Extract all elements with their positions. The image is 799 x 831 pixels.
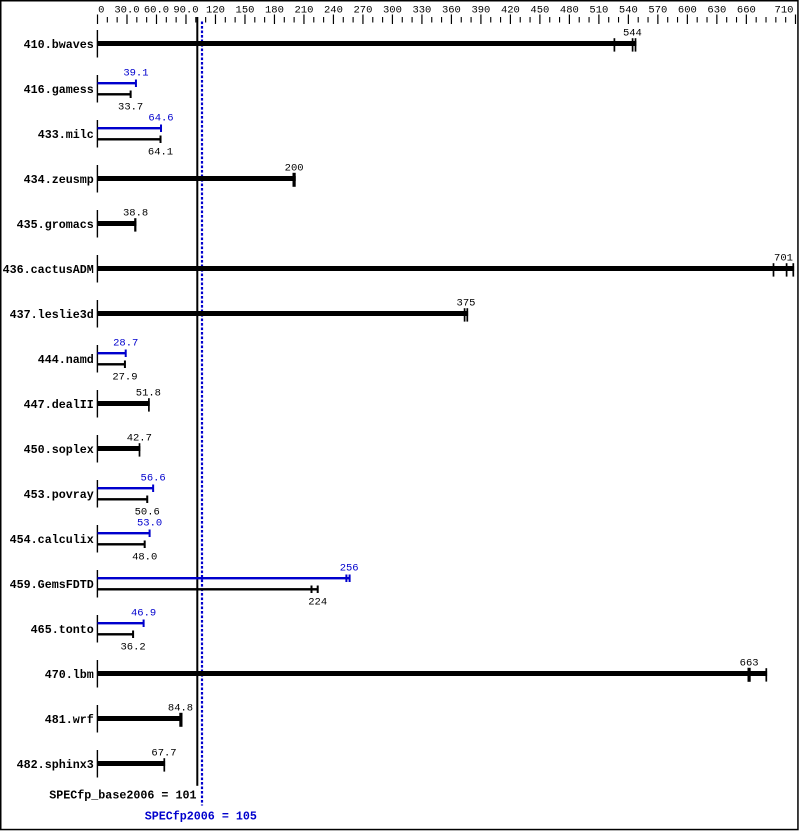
svg-text:701: 701: [774, 253, 793, 265]
465.tonto axis baseline tick: [97, 615, 98, 643]
459.GemsFDTD base bar: [98, 588, 318, 590]
453.povray peak bar: [98, 487, 154, 489]
416.gamess base value 33.7: [118, 102, 143, 114]
svg-text:375: 375: [457, 298, 476, 310]
454.calculix base value 48.0: [132, 552, 157, 564]
459.GemsFDTD peak run marker 2: [349, 575, 351, 583]
434.zeusmp run marker 1: [293, 173, 296, 187]
454.calculix base bar: [98, 543, 145, 545]
base reference line (101): [196, 17, 198, 786]
444.namd base value 27.9: [112, 372, 137, 384]
416.gamess peak value 39.1: [123, 68, 148, 80]
svg-text:435.gromacs: 435.gromacs: [17, 218, 94, 232]
436.cactusADM merged base+peak bar: [98, 266, 795, 271]
459.GemsFDTD axis baseline tick: [97, 570, 98, 598]
svg-text:453.povray: 453.povray: [24, 488, 94, 502]
benchmark label 447.dealII: [24, 398, 94, 412]
svg-text:450: 450: [530, 4, 549, 16]
svg-text:46.9: 46.9: [131, 608, 156, 620]
470.lbm result value 663: [740, 658, 759, 670]
benchmark label 481.wrf: [45, 713, 94, 727]
454.calculix base run marker 1: [144, 541, 146, 549]
svg-text:224: 224: [308, 597, 327, 609]
svg-text:200: 200: [285, 163, 304, 175]
410.bwaves result value 544: [623, 28, 642, 40]
416.gamess base bar: [98, 93, 131, 95]
434.zeusmp result value 200: [285, 163, 304, 175]
433.milc base run marker 1: [160, 136, 162, 144]
435.gromacs axis baseline tick: [97, 210, 98, 238]
410.bwaves merged base+peak bar: [98, 41, 637, 46]
svg-text:300: 300: [383, 4, 402, 16]
453.povray base run marker 1: [146, 496, 148, 504]
svg-text:710: 710: [775, 4, 794, 16]
peak reference line (105, dotted): [201, 22, 203, 806]
svg-text:420: 420: [501, 4, 520, 16]
481.wrf merged base+peak bar: [98, 716, 183, 721]
svg-text:SPECfp_base2006 = 101: SPECfp_base2006 = 101: [49, 789, 196, 803]
svg-text:465.tonto: 465.tonto: [31, 623, 94, 637]
433.milc base value 64.1: [148, 147, 173, 159]
svg-text:60.0: 60.0: [144, 4, 169, 16]
benchmark label 470.lbm: [45, 668, 94, 682]
450.soplex result value 42.7: [127, 433, 152, 445]
benchmark label 444.namd: [38, 353, 94, 367]
465.tonto base run marker 1: [132, 631, 134, 639]
svg-text:90.0: 90.0: [173, 4, 198, 16]
454.calculix peak value 53.0: [137, 518, 162, 530]
svg-text:410.bwaves: 410.bwaves: [24, 38, 94, 52]
465.tonto peak value 46.9: [131, 608, 156, 620]
465.tonto base bar: [98, 633, 134, 635]
svg-text:150: 150: [236, 4, 255, 16]
svg-text:454.calculix: 454.calculix: [10, 533, 94, 547]
benchmark label 437.leslie3d: [10, 308, 94, 322]
435.gromacs merged base+peak bar: [98, 221, 137, 226]
svg-text:450.soplex: 450.soplex: [24, 443, 94, 457]
svg-text:180: 180: [265, 4, 284, 16]
svg-text:42.7: 42.7: [127, 433, 152, 445]
433.milc peak bar: [98, 127, 162, 129]
444.namd base run marker 1: [124, 361, 126, 369]
svg-text:64.1: 64.1: [148, 147, 173, 159]
svg-text:360: 360: [442, 4, 461, 16]
svg-text:53.0: 53.0: [137, 518, 162, 530]
svg-text:64.6: 64.6: [148, 113, 173, 125]
459.GemsFDTD base value 224: [308, 597, 327, 609]
svg-text:540: 540: [619, 4, 638, 16]
svg-text:481.wrf: 481.wrf: [45, 713, 94, 727]
444.namd base bar: [98, 363, 125, 365]
svg-text:480: 480: [560, 4, 579, 16]
437.leslie3d run marker 1: [464, 308, 466, 321]
x-axis tick labels: [98, 4, 793, 16]
benchmark label 459.GemsFDTD: [10, 578, 94, 592]
434.zeusmp axis baseline tick: [97, 165, 98, 193]
x-axis minor ticks: [107, 17, 786, 23]
450.soplex merged base+peak bar: [98, 446, 141, 451]
x-axis major ticks: [97, 15, 796, 25]
470.lbm axis baseline tick: [97, 660, 98, 688]
416.gamess base run marker 1: [130, 91, 132, 99]
465.tonto peak bar: [98, 622, 144, 624]
470.lbm run marker 1: [748, 668, 751, 682]
436.cactusADM axis baseline tick: [97, 255, 98, 283]
svg-text:600: 600: [678, 4, 697, 16]
svg-text:56.6: 56.6: [141, 473, 166, 485]
436.cactusADM run marker 1: [773, 263, 775, 276]
svg-text:436.cactusADM: 436.cactusADM: [3, 263, 94, 277]
436.cactusADM run marker 3: [792, 263, 794, 276]
svg-text:36.2: 36.2: [120, 642, 145, 654]
benchmark label 454.calculix: [10, 533, 94, 547]
459.GemsFDTD base run marker 2: [317, 586, 319, 594]
svg-text:SPECfp2006 = 105: SPECfp2006 = 105: [145, 810, 257, 824]
437.leslie3d axis baseline tick: [97, 300, 98, 328]
435.gromacs result value 38.8: [123, 208, 148, 220]
447.dealII axis baseline tick: [97, 390, 98, 418]
453.povray peak value 56.6: [141, 473, 166, 485]
svg-text:660: 660: [737, 4, 756, 16]
434.zeusmp merged base+peak bar: [98, 176, 296, 181]
svg-text:30.0: 30.0: [114, 4, 139, 16]
svg-text:210: 210: [294, 4, 313, 16]
benchmark label 410.bwaves: [24, 38, 94, 52]
svg-text:444.namd: 444.namd: [38, 353, 94, 367]
459.GemsFDTD peak run marker 1: [345, 575, 347, 583]
410.bwaves run marker 2: [632, 38, 634, 51]
433.milc peak run marker 1: [160, 125, 162, 133]
453.povray base bar: [98, 498, 148, 500]
svg-text:630: 630: [707, 4, 726, 16]
459.GemsFDTD peak bar: [98, 577, 350, 579]
svg-text:28.7: 28.7: [113, 338, 138, 350]
svg-text:256: 256: [340, 563, 359, 575]
svg-text:482.sphinx3: 482.sphinx3: [17, 758, 94, 772]
svg-text:51.8: 51.8: [136, 388, 161, 400]
benchmark label 453.povray: [24, 488, 94, 502]
svg-text:437.leslie3d: 437.leslie3d: [10, 308, 94, 322]
481.wrf result value 84.8: [168, 703, 193, 715]
SPECfp_base2006 summary text: [49, 789, 196, 803]
465.tonto peak run marker 1: [143, 620, 145, 628]
svg-text:240: 240: [324, 4, 343, 16]
447.dealII result value 51.8: [136, 388, 161, 400]
454.calculix axis baseline tick: [97, 525, 98, 553]
482.sphinx3 merged base+peak bar: [98, 761, 166, 766]
433.milc peak value 64.6: [148, 113, 173, 125]
SPECfp2006 summary text: [145, 810, 257, 824]
454.calculix peak bar: [98, 532, 150, 534]
svg-text:544: 544: [623, 28, 642, 40]
444.namd peak value 28.7: [113, 338, 138, 350]
410.bwaves run marker 1: [614, 38, 616, 51]
433.milc base bar: [98, 138, 161, 140]
benchmark label 482.sphinx3: [17, 758, 94, 772]
416.gamess peak bar: [98, 82, 136, 84]
svg-text:120: 120: [206, 4, 225, 16]
svg-text:33.7: 33.7: [118, 102, 143, 114]
svg-text:470.lbm: 470.lbm: [45, 668, 94, 682]
416.gamess axis baseline tick: [97, 75, 98, 103]
481.wrf axis baseline tick: [97, 705, 98, 733]
svg-text:570: 570: [648, 4, 667, 16]
470.lbm run marker 2: [765, 668, 767, 681]
450.soplex run marker 1: [139, 443, 141, 456]
444.namd axis baseline tick: [97, 345, 98, 373]
svg-text:27.9: 27.9: [112, 372, 137, 384]
benchmark label 434.zeusmp: [24, 173, 94, 187]
453.povray peak run marker 1: [152, 485, 154, 493]
svg-text:67.7: 67.7: [151, 748, 176, 760]
482.sphinx3 axis baseline tick: [97, 750, 98, 778]
benchmark label 416.gamess: [24, 83, 94, 97]
410.bwaves run marker 3: [635, 38, 637, 51]
482.sphinx3 result value 67.7: [151, 748, 176, 760]
svg-text:38.8: 38.8: [123, 208, 148, 220]
svg-text:84.8: 84.8: [168, 703, 193, 715]
436.cactusADM result value 701: [774, 253, 793, 265]
444.namd peak bar: [98, 352, 126, 354]
svg-text:39.1: 39.1: [123, 68, 148, 80]
459.GemsFDTD base run marker 1: [311, 586, 313, 594]
benchmark label 436.cactusADM: [3, 263, 94, 277]
447.dealII run marker 1: [148, 398, 150, 411]
465.tonto base value 36.2: [120, 642, 145, 654]
437.leslie3d result value 375: [457, 298, 476, 310]
481.wrf run marker 1: [179, 713, 182, 727]
svg-text:447.dealII: 447.dealII: [24, 398, 94, 412]
436.cactusADM run marker 2: [786, 263, 788, 276]
459.GemsFDTD peak value 256: [340, 563, 359, 575]
svg-text:330: 330: [412, 4, 431, 16]
svg-text:0: 0: [98, 4, 104, 16]
470.lbm merged base+peak bar: [98, 671, 768, 676]
benchmark label 433.milc: [38, 128, 94, 142]
437.leslie3d run marker 2: [466, 308, 468, 321]
svg-text:390: 390: [471, 4, 490, 16]
benchmark label 435.gromacs: [17, 218, 94, 232]
482.sphinx3 run marker 1: [163, 758, 165, 771]
benchmark label 465.tonto: [31, 623, 94, 637]
410.bwaves axis baseline tick: [97, 30, 98, 58]
svg-text:433.milc: 433.milc: [38, 128, 94, 142]
433.milc axis baseline tick: [97, 120, 98, 148]
benchmark label 450.soplex: [24, 443, 94, 457]
svg-text:434.zeusmp: 434.zeusmp: [24, 173, 94, 187]
svg-text:48.0: 48.0: [132, 552, 157, 564]
svg-text:510: 510: [589, 4, 608, 16]
447.dealII merged base+peak bar: [98, 401, 150, 406]
435.gromacs run marker 1: [134, 218, 136, 231]
453.povray base value 50.6: [135, 507, 160, 519]
416.gamess peak run marker 1: [135, 80, 137, 88]
svg-text:416.gamess: 416.gamess: [24, 83, 94, 97]
437.leslie3d merged base+peak bar: [98, 311, 469, 316]
svg-text:270: 270: [353, 4, 372, 16]
454.calculix peak run marker 1: [149, 530, 151, 538]
444.namd peak run marker 1: [125, 350, 127, 358]
svg-text:459.GemsFDTD: 459.GemsFDTD: [10, 578, 94, 592]
450.soplex axis baseline tick: [97, 435, 98, 463]
svg-text:663: 663: [740, 658, 759, 670]
453.povray axis baseline tick: [97, 480, 98, 508]
